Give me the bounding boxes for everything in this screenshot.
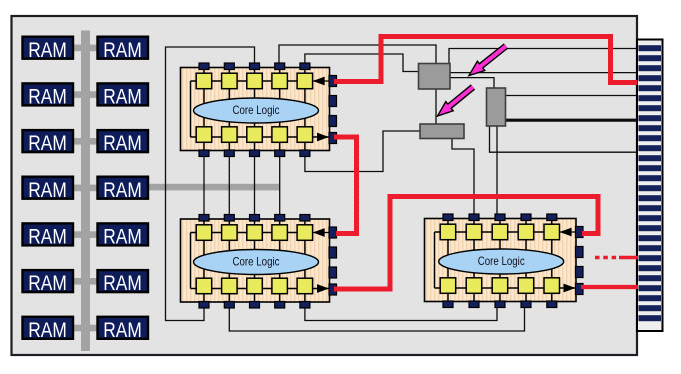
svg-text:Core Logic: Core Logic	[233, 104, 280, 117]
svg-text:RAM: RAM	[103, 38, 142, 62]
svg-text:Core Logic: Core Logic	[233, 255, 280, 268]
svg-text:RAM: RAM	[103, 318, 142, 342]
svg-text:RAM: RAM	[28, 131, 67, 155]
svg-text:RAM: RAM	[103, 85, 142, 109]
svg-text:RAM: RAM	[103, 178, 142, 202]
svg-text:RAM: RAM	[28, 178, 67, 202]
svg-text:RAM: RAM	[103, 131, 142, 155]
svg-text:RAM: RAM	[28, 271, 67, 295]
svg-text:Core Logic: Core Logic	[478, 255, 525, 268]
svg-text:RAM: RAM	[103, 225, 142, 249]
svg-text:RAM: RAM	[28, 38, 67, 62]
svg-text:RAM: RAM	[28, 318, 67, 342]
svg-text:RAM: RAM	[28, 85, 67, 109]
svg-text:RAM: RAM	[103, 271, 142, 295]
svg-text:RAM: RAM	[28, 225, 67, 249]
